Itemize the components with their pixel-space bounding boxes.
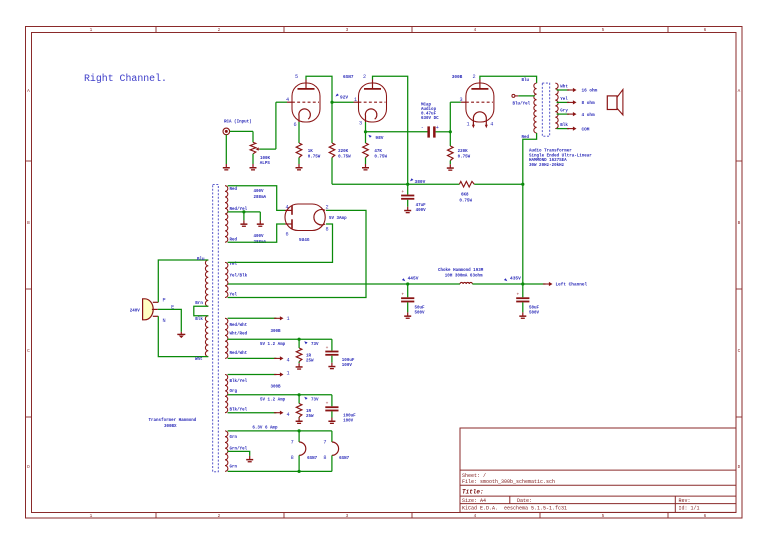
svg-text:+: +: [401, 190, 404, 195]
svg-text:0.75W: 0.75W: [338, 156, 351, 160]
svg-text:7: 7: [291, 440, 294, 446]
svg-text:1: 1: [287, 316, 290, 322]
svg-text:380V: 380V: [415, 179, 426, 185]
svg-text:400V: 400V: [254, 190, 265, 194]
svg-text:C: C: [738, 349, 741, 354]
svg-text:+: +: [326, 346, 329, 351]
svg-text:5: 5: [602, 514, 605, 519]
svg-text:220K: 220K: [338, 150, 349, 154]
svg-text:2: 2: [218, 514, 221, 519]
svg-text:1R: 1R: [306, 410, 312, 414]
svg-text:Right Channel.: Right Channel.: [84, 73, 167, 84]
svg-text:+: +: [436, 125, 439, 131]
svg-text:Choke Hammond 193M: Choke Hammond 193M: [438, 268, 484, 273]
svg-text:1R: 1R: [306, 355, 312, 359]
svg-text:Rev:: Rev:: [679, 498, 691, 504]
svg-text:Red/Wht: Red/Wht: [230, 351, 248, 356]
svg-text:300B: 300B: [271, 386, 282, 390]
svg-text:0.75W: 0.75W: [308, 156, 321, 160]
svg-text:Grn: Grn: [230, 465, 238, 469]
svg-text:5: 5: [602, 28, 605, 33]
svg-text:400V: 400V: [416, 209, 427, 213]
svg-text:6: 6: [285, 231, 288, 237]
svg-text:4: 4: [474, 28, 477, 33]
svg-text:50uF: 50uF: [529, 307, 540, 311]
svg-text:Audio Transformer: Audio Transformer: [529, 149, 572, 154]
svg-text:100uF: 100uF: [343, 415, 356, 419]
svg-text:2: 2: [325, 205, 328, 211]
svg-text:A: A: [27, 89, 30, 94]
svg-text:288mA: 288mA: [254, 196, 267, 200]
svg-text:ALPS: ALPS: [260, 162, 271, 166]
svg-text:16 ohm: 16 ohm: [582, 89, 598, 94]
svg-text:47uF: 47uF: [416, 204, 427, 208]
svg-text:3: 3: [346, 514, 349, 519]
svg-text:4 ohm: 4 ohm: [582, 113, 596, 118]
svg-text:1: 1: [466, 121, 469, 127]
svg-text:0.75W: 0.75W: [374, 156, 387, 160]
svg-text:500V: 500V: [529, 311, 540, 315]
svg-text:25W: 25W: [306, 359, 314, 363]
svg-text:2: 2: [218, 28, 221, 33]
svg-text:0.47uF: 0.47uF: [421, 112, 437, 116]
svg-text:B: B: [27, 221, 30, 226]
svg-text:1: 1: [90, 28, 93, 33]
svg-text:Size: A4: Size: A4: [462, 498, 486, 504]
svg-text:8: 8: [323, 455, 326, 461]
svg-text:Yel: Yel: [560, 97, 568, 102]
svg-text:73V: 73V: [311, 343, 319, 347]
svg-text:Left Channel: Left Channel: [556, 283, 588, 288]
svg-text:Wht: Wht: [195, 357, 203, 362]
svg-text:6: 6: [704, 28, 707, 33]
svg-text:Blu: Blu: [197, 257, 205, 262]
svg-text:100uF: 100uF: [342, 359, 355, 363]
svg-text:4: 4: [286, 97, 289, 103]
svg-text:Yel: Yel: [230, 293, 238, 298]
svg-text:630V DC: 630V DC: [421, 117, 439, 121]
svg-text:6K8: 6K8: [461, 194, 469, 198]
svg-text:6SN7: 6SN7: [307, 457, 318, 461]
svg-text:5: 5: [295, 74, 298, 80]
svg-text:1K: 1K: [308, 150, 314, 154]
svg-text:73V: 73V: [311, 398, 319, 402]
svg-text:B: B: [738, 221, 741, 226]
svg-text:92V: 92V: [340, 95, 348, 101]
svg-text:Red/Wht: Red/Wht: [230, 323, 248, 328]
svg-text:Org: Org: [230, 390, 238, 394]
svg-text:Blk/Yel: Blk/Yel: [230, 407, 248, 412]
svg-text:1: 1: [287, 370, 290, 376]
svg-text:RCA (Input): RCA (Input): [224, 120, 252, 125]
svg-text:Title:: Title:: [462, 489, 484, 496]
svg-text:Gry: Gry: [560, 110, 568, 114]
svg-text:5V 3Amp: 5V 3Amp: [329, 217, 347, 221]
svg-text:Blu: Blu: [522, 78, 530, 83]
svg-text:500V: 500V: [415, 311, 426, 315]
svg-text:5V 1.2 Amp: 5V 1.2 Amp: [260, 343, 286, 347]
svg-text:Blk: Blk: [195, 317, 203, 322]
svg-text:100K: 100K: [260, 157, 271, 161]
svg-text:3: 3: [346, 28, 349, 33]
svg-text:Wht/Red: Wht/Red: [230, 332, 248, 337]
svg-text:Red: Red: [230, 237, 238, 242]
svg-text:KiCad E.D.A. eeschema 5.1.5-1: KiCad E.D.A. eeschema 5.1.5-1.fc31: [462, 506, 567, 512]
svg-text:4: 4: [285, 205, 288, 211]
svg-text:P: P: [163, 297, 166, 303]
svg-text:Transformer Hammond: Transformer Hammond: [149, 418, 197, 423]
svg-text:10H 300mA 63ohm: 10H 300mA 63ohm: [445, 274, 483, 279]
svg-text:HAMMOND 1627SEA: HAMMOND 1627SEA: [529, 159, 567, 163]
svg-text:4: 4: [474, 514, 477, 519]
svg-text:+: +: [517, 293, 520, 298]
svg-text:Blk: Blk: [560, 123, 568, 128]
svg-text:4: 4: [287, 358, 290, 364]
svg-text:8 ohm: 8 ohm: [582, 101, 596, 106]
svg-text:2: 2: [472, 74, 475, 80]
svg-text:COM: COM: [582, 127, 590, 132]
svg-text:3: 3: [359, 121, 362, 127]
svg-text:220K: 220K: [458, 150, 469, 154]
svg-text:Yel/Blk: Yel/Blk: [230, 274, 248, 279]
svg-text:445V: 445V: [408, 275, 419, 281]
svg-text:D: D: [738, 465, 741, 470]
svg-text:100V: 100V: [343, 420, 354, 424]
svg-text:4: 4: [287, 412, 290, 418]
svg-text:Grn: Grn: [230, 436, 238, 440]
svg-text:300BX: 300BX: [164, 425, 177, 429]
svg-text:300B: 300B: [271, 330, 282, 334]
svg-text:0.75W: 0.75W: [458, 156, 471, 160]
svg-text:240V: 240V: [130, 309, 141, 313]
svg-text:6SN7: 6SN7: [339, 457, 350, 461]
svg-text:Audiop: Audiop: [421, 107, 437, 112]
svg-text:Blu/Yel: Blu/Yel: [513, 102, 531, 107]
svg-text:MCap: MCap: [421, 103, 432, 107]
svg-text:Date:: Date:: [517, 498, 532, 504]
svg-text:400V: 400V: [254, 235, 265, 239]
svg-text:C: C: [27, 349, 30, 354]
svg-text:A: A: [738, 89, 741, 94]
svg-text:1: 1: [354, 97, 357, 103]
svg-text:Single Ended Ultra-Linear: Single Ended Ultra-Linear: [529, 153, 592, 158]
svg-text:Wht: Wht: [560, 84, 568, 89]
svg-text:25W: 25W: [306, 415, 314, 419]
svg-text:6: 6: [293, 122, 296, 128]
svg-text:File: smooth_300b_schematic.sc: File: smooth_300b_schematic.sch: [462, 479, 555, 485]
svg-text:+: +: [326, 402, 329, 407]
svg-text:100V: 100V: [342, 364, 353, 368]
svg-text:300B: 300B: [452, 75, 463, 80]
svg-text:2: 2: [363, 74, 366, 80]
svg-text:Red: Red: [230, 187, 238, 192]
svg-text:6.3V 6 Amp: 6.3V 6 Amp: [252, 426, 278, 430]
svg-text:1: 1: [90, 514, 93, 519]
svg-text:6: 6: [704, 514, 707, 519]
svg-text:8: 8: [291, 455, 294, 461]
svg-text:47K: 47K: [374, 150, 382, 154]
svg-text:4: 4: [490, 121, 493, 127]
svg-text:Id: 1/1: Id: 1/1: [679, 506, 700, 512]
svg-text:D: D: [27, 465, 30, 470]
svg-text:50uF: 50uF: [415, 307, 426, 311]
svg-text:30W 20Hz-20kHz: 30W 20Hz-20kHz: [529, 163, 565, 168]
svg-text:7: 7: [323, 440, 326, 446]
svg-text:Brn: Brn: [195, 302, 203, 306]
svg-text:5V 1.2 Amp: 5V 1.2 Amp: [260, 398, 286, 402]
svg-text:Grn/Yel: Grn/Yel: [230, 446, 248, 451]
svg-text:N: N: [163, 318, 166, 324]
svg-text:Blk/Yel: Blk/Yel: [230, 379, 248, 384]
svg-text:6SN7: 6SN7: [343, 75, 354, 80]
svg-text:98V: 98V: [375, 135, 383, 141]
svg-text:435V: 435V: [510, 275, 521, 281]
svg-text:8: 8: [325, 226, 328, 232]
svg-text:+: +: [401, 293, 404, 298]
svg-text:5U4G: 5U4G: [299, 238, 310, 243]
svg-text:0.75W: 0.75W: [459, 200, 472, 204]
svg-text:-: -: [421, 125, 424, 131]
